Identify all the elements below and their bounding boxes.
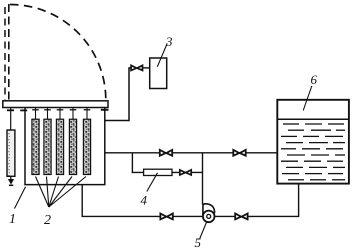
wire: down pipe to pump: [202, 153, 204, 205]
electrode bar 2e: [83, 119, 90, 174]
valve upper pipe left: [160, 150, 172, 156]
label 6 leader: [303, 86, 312, 111]
pump 5 volute: [203, 204, 215, 215]
tank 6 body: [277, 100, 349, 184]
svg-text:1: 1: [9, 212, 16, 227]
tank 6 liquid surface: [277, 118, 349, 120]
svg-text:6: 6: [311, 72, 318, 87]
label 5 leader: [200, 222, 207, 239]
valve upper pipe right: [233, 150, 245, 156]
chamber left wall t-cap: [20, 109, 27, 111]
wire: dashed door line inner: [4, 7, 6, 100]
component 1 (heater column): [7, 130, 15, 185]
wire: bypass branch drop: [131, 153, 133, 173]
wire: riser to box 3: [128, 68, 130, 121]
door swing dashed arc: [10, 4, 106, 98]
wire: dashed door line outer: [8, 4, 10, 100]
hanger bar 2d: [70, 108, 77, 120]
valve bottom pipe right: [235, 213, 247, 219]
svg-text:4: 4: [141, 193, 148, 208]
electrode bar 2d: [69, 119, 76, 174]
wire: upper pipe chamber to tank: [105, 152, 278, 154]
valve on bypass: [180, 170, 191, 175]
electrode bar 2b: [44, 119, 51, 174]
svg-text:2: 2: [44, 213, 51, 228]
wire: pump to tank bottom pipe: [214, 184, 298, 217]
tank 6 liquid dashes: [281, 124, 345, 180]
wire: chamber to expansion box 3 (horizontal): [105, 120, 129, 122]
wire: bypass lower pipe: [132, 171, 203, 173]
electrode bar 2a: [32, 119, 39, 174]
chamber right wall t-cap: [101, 109, 109, 111]
hanger bar 2b: [44, 108, 51, 120]
valve on box-3 line: [131, 65, 142, 70]
hanger bar 2c: [57, 108, 64, 120]
svg-text:5: 5: [195, 235, 202, 250]
component 4 (filter): [144, 169, 172, 175]
box 3: [150, 58, 167, 89]
label 3 leader: [157, 44, 167, 67]
valve bottom pipe left: [160, 213, 172, 219]
wire: chamber bottom outlet drop: [82, 185, 203, 217]
svg-text:3: 3: [165, 34, 173, 49]
hanger for component 1: [7, 108, 14, 131]
hanger bar 2a: [32, 108, 39, 120]
label 2 fan leaders: [36, 177, 87, 208]
hanger bar 2e: [84, 108, 91, 120]
electrode bar 2c: [56, 119, 63, 174]
pump 5 hub: [207, 214, 211, 218]
ceiling bar: [3, 101, 108, 108]
label 1 leader: [15, 187, 26, 209]
wire: valve to box 3: [143, 67, 151, 69]
pump 5 body: [203, 211, 215, 223]
wire: stub to valve: [128, 67, 131, 69]
chamber (bath body under bar): [25, 108, 105, 185]
label 4 leader: [147, 173, 158, 192]
